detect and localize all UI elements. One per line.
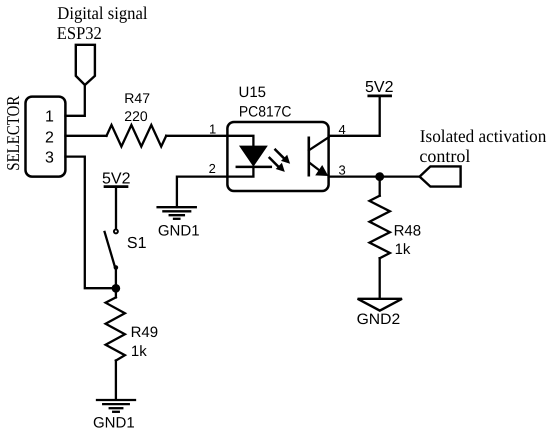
svg-text:Digital signal: Digital signal	[57, 3, 147, 23]
connector: ESP32 input (pentagon pointing down)	[76, 45, 95, 85]
label: R47 220	[124, 90, 150, 124]
svg-text:GND2: GND2	[357, 311, 401, 328]
label: R49 1k	[131, 324, 159, 360]
light arrow 1	[275, 150, 290, 164]
wire: junction to R48	[379, 177, 381, 196]
optocoupler U15 box	[227, 122, 328, 191]
resistor R48 (vertical zigzag)	[370, 196, 390, 259]
power: 5V2 (right)	[365, 79, 394, 96]
LED cathode wire to pin 2	[227, 167, 253, 177]
phototransistor: collector	[309, 137, 329, 150]
wire: selector pin 3 down-left column	[66, 157, 113, 289]
phototransistor: emitter with arrow	[310, 163, 329, 176]
wire: ESP32 connector to selector pin 1	[66, 85, 85, 116]
svg-text:U15: U15	[239, 84, 267, 101]
wire: junction to R49	[115, 288, 117, 297]
svg-text:3: 3	[45, 150, 54, 167]
label: R48 1k	[394, 223, 422, 258]
svg-text:SELECTOR: SELECTOR	[3, 96, 23, 171]
svg-text:2: 2	[209, 161, 216, 176]
svg-text:PC817C: PC817C	[239, 104, 292, 121]
label: Digital signal / ESP32	[57, 3, 148, 43]
junction node (switch/R49/selector pin3)	[112, 284, 121, 293]
svg-text:ESP32: ESP32	[57, 23, 102, 43]
connector: isolated activation control (pentagon pointing left)	[420, 166, 461, 186]
wire: opto pin 2 to GND1 (middle)	[177, 177, 228, 207]
svg-text:control: control	[419, 146, 470, 166]
svg-text:1: 1	[45, 109, 54, 126]
wire: selector pin 2 to R47	[66, 135, 107, 137]
label: U15 / PC817C	[239, 84, 292, 121]
label: Isolated activation control	[419, 126, 546, 166]
wire: R49 to GND1	[115, 361, 117, 399]
power: 5V2 (left)	[102, 170, 131, 228]
resistor R49 (vertical zigzag)	[106, 297, 125, 360]
svg-text:R48: R48	[394, 223, 422, 240]
svg-text:Isolated activation: Isolated activation	[420, 126, 547, 146]
resistor R47 (zigzag)	[107, 125, 167, 147]
ground GND1 (bottom left, earth symbol)	[97, 400, 135, 412]
svg-text:3: 3	[339, 163, 346, 178]
connector J: SELECTOR box	[26, 97, 66, 177]
switch S1	[105, 229, 119, 285]
svg-text:S1: S1	[127, 235, 147, 252]
LED triangle (filled)	[240, 146, 266, 165]
wire: R47 to optocoupler pin 1	[166, 135, 227, 137]
light arrow 2	[270, 158, 285, 172]
svg-text:1k: 1k	[131, 343, 147, 360]
phototransistor: base line	[307, 138, 310, 175]
wire: R48 to GND2	[379, 258, 381, 297]
svg-text:2: 2	[45, 129, 54, 146]
ground GND2 (open triangle)	[358, 299, 402, 311]
svg-text:R49: R49	[131, 324, 159, 341]
svg-text:GND1: GND1	[93, 414, 135, 431]
label: selector pin numbers 1 2 3	[45, 109, 54, 167]
LED inside opto: anode wire	[227, 136, 253, 147]
svg-text:1: 1	[209, 122, 216, 137]
svg-text:R47: R47	[124, 90, 150, 106]
svg-text:220: 220	[124, 108, 148, 124]
wire: opto pin 4 to 5V2	[329, 97, 380, 136]
wire: opto pin 3 to output connector	[329, 175, 420, 177]
svg-text:1k: 1k	[395, 241, 411, 258]
svg-text:5V2: 5V2	[365, 79, 394, 96]
svg-text:5V2: 5V2	[102, 170, 131, 187]
LED cathode bar	[237, 166, 271, 169]
junction node on pin 3 wire	[375, 172, 384, 181]
ground GND1 (middle, earth symbol)	[158, 207, 196, 219]
svg-text:GND1: GND1	[158, 222, 200, 239]
